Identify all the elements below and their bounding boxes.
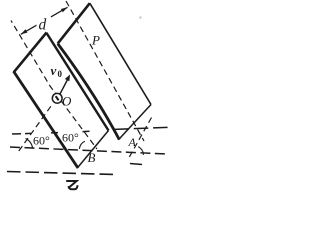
svg-text:d: d	[39, 17, 47, 34]
left plate edge R1-T1 (upper-right, medium)	[46, 33, 108, 131]
angle arc right 60	[79, 141, 84, 149]
svg-text:O: O	[62, 94, 72, 109]
horizontal dashed line H1 mid dash a	[51, 132, 58, 134]
horizontal dashed line H1 left stub	[12, 132, 31, 135]
particle circle at O (field symbol)	[52, 93, 62, 103]
svg-text:P: P	[91, 33, 100, 48]
right plate edge B2-R2 (bottom-right, thin)	[119, 105, 151, 140]
d dimension line with arrowheads	[21, 7, 68, 34]
white backing for d label	[37, 17, 52, 32]
faint scan dot top right	[139, 16, 142, 19]
right plate edge R2-T2 (upper-right, thin)	[90, 3, 151, 104]
angle arc left 60	[26, 139, 33, 149]
CJK label yi (second) drawn as path	[66, 181, 77, 189]
horizontal dashed line H1 right part (through A)	[115, 127, 172, 129]
particle centre dot	[56, 96, 59, 100]
stray dash right of H2	[130, 164, 142, 165]
v0 arrowhead	[65, 75, 70, 82]
svg-text:0: 0	[58, 69, 63, 79]
svg-text:60°: 60°	[33, 134, 50, 148]
left plate edge T1-L1 (top-left, thick)	[14, 32, 47, 72]
dashed v0 trajectory line through O	[19, 104, 53, 151]
horizontal dashed line H1 mid dash b	[83, 130, 90, 132]
dashed exit line near A	[129, 118, 152, 159]
svg-text:v: v	[51, 63, 57, 78]
dashed line D1 (left plate centre dashed line)	[11, 21, 97, 150]
svg-text:60°: 60°	[62, 131, 79, 145]
d dimension left arrowhead	[21, 29, 28, 34]
horizontal dashed line H3 (bottom)	[7, 172, 116, 175]
angle arc at A	[138, 147, 143, 155]
left plate edge L1-B1 (lower-left, thick)	[14, 71, 78, 168]
v0 arrow from O	[60, 78, 69, 95]
right plate edge T2-L2 (top-left, thick)	[58, 3, 90, 43]
svg-text:A: A	[128, 135, 137, 149]
left plate edge B1-R1 (bottom-right, thin)	[77, 131, 108, 169]
right plate edge L2-B2 (lower-left, thick)	[58, 44, 120, 140]
d dimension right arrowhead	[61, 7, 68, 12]
svg-text:B: B	[88, 150, 96, 165]
dashed line through P (right plate centre dashed line)	[66, 1, 144, 141]
horizontal dashed line H2 (through angle vertices)	[10, 147, 167, 154]
